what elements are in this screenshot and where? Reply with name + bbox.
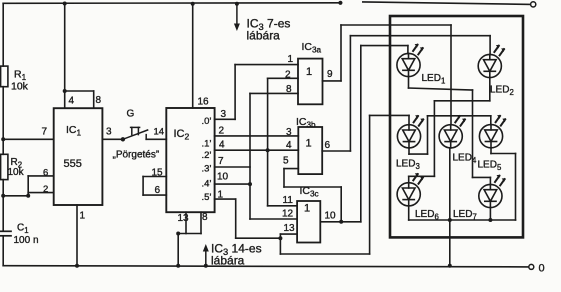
svg-text:2: 2: [285, 70, 291, 81]
svg-text:11: 11: [283, 195, 294, 206]
svg-text:3: 3: [221, 109, 227, 120]
svg-text:.1’: .1’: [202, 138, 212, 149]
svg-text:15: 15: [152, 168, 164, 179]
svg-text:lábára: lábára: [211, 254, 245, 268]
svg-text:2: 2: [219, 126, 225, 137]
svg-text:.5’: .5’: [202, 192, 212, 203]
svg-text:5: 5: [283, 156, 289, 167]
svg-text:7: 7: [218, 156, 224, 167]
svg-text:4: 4: [219, 140, 225, 151]
svg-text:100 n: 100 n: [14, 235, 39, 246]
svg-text:G: G: [127, 109, 135, 120]
svg-text:1: 1: [288, 54, 294, 65]
svg-text:1: 1: [306, 138, 312, 150]
svg-text:1: 1: [218, 190, 224, 201]
svg-text:6: 6: [155, 185, 161, 196]
svg-text:„Pörgetés”: „Pörgetés”: [113, 150, 160, 161]
svg-text:.2’: .2’: [202, 150, 212, 161]
svg-text:14: 14: [154, 127, 165, 138]
svg-text:4: 4: [69, 96, 75, 107]
svg-text:.4’: .4’: [202, 179, 212, 190]
svg-text:6: 6: [43, 168, 48, 179]
svg-text:13: 13: [178, 213, 190, 224]
svg-text:1: 1: [306, 66, 312, 78]
svg-text:3: 3: [286, 127, 292, 138]
svg-text:1: 1: [304, 203, 310, 215]
svg-text:.0’: .0’: [202, 116, 212, 127]
svg-text:2: 2: [43, 184, 48, 195]
svg-text:10k: 10k: [8, 167, 25, 178]
svg-text:1: 1: [80, 211, 86, 222]
svg-text:.3’: .3’: [202, 163, 212, 174]
svg-text:555: 555: [64, 158, 82, 170]
svg-text:8: 8: [286, 84, 292, 95]
svg-text:lábára: lábára: [247, 29, 281, 43]
svg-text:6: 6: [325, 140, 331, 151]
svg-text:10: 10: [325, 210, 337, 221]
svg-text:8: 8: [96, 95, 102, 106]
svg-text:10k: 10k: [11, 81, 29, 93]
svg-text:4: 4: [286, 140, 292, 151]
svg-text:7: 7: [42, 127, 48, 138]
svg-text:16: 16: [198, 97, 210, 108]
svg-text:12: 12: [282, 209, 294, 220]
svg-text:13: 13: [284, 223, 296, 234]
svg-text:0: 0: [539, 263, 545, 275]
svg-text:10: 10: [217, 171, 229, 182]
svg-text:3: 3: [106, 127, 112, 138]
svg-text:9: 9: [327, 69, 333, 80]
svg-text:8: 8: [202, 212, 208, 223]
